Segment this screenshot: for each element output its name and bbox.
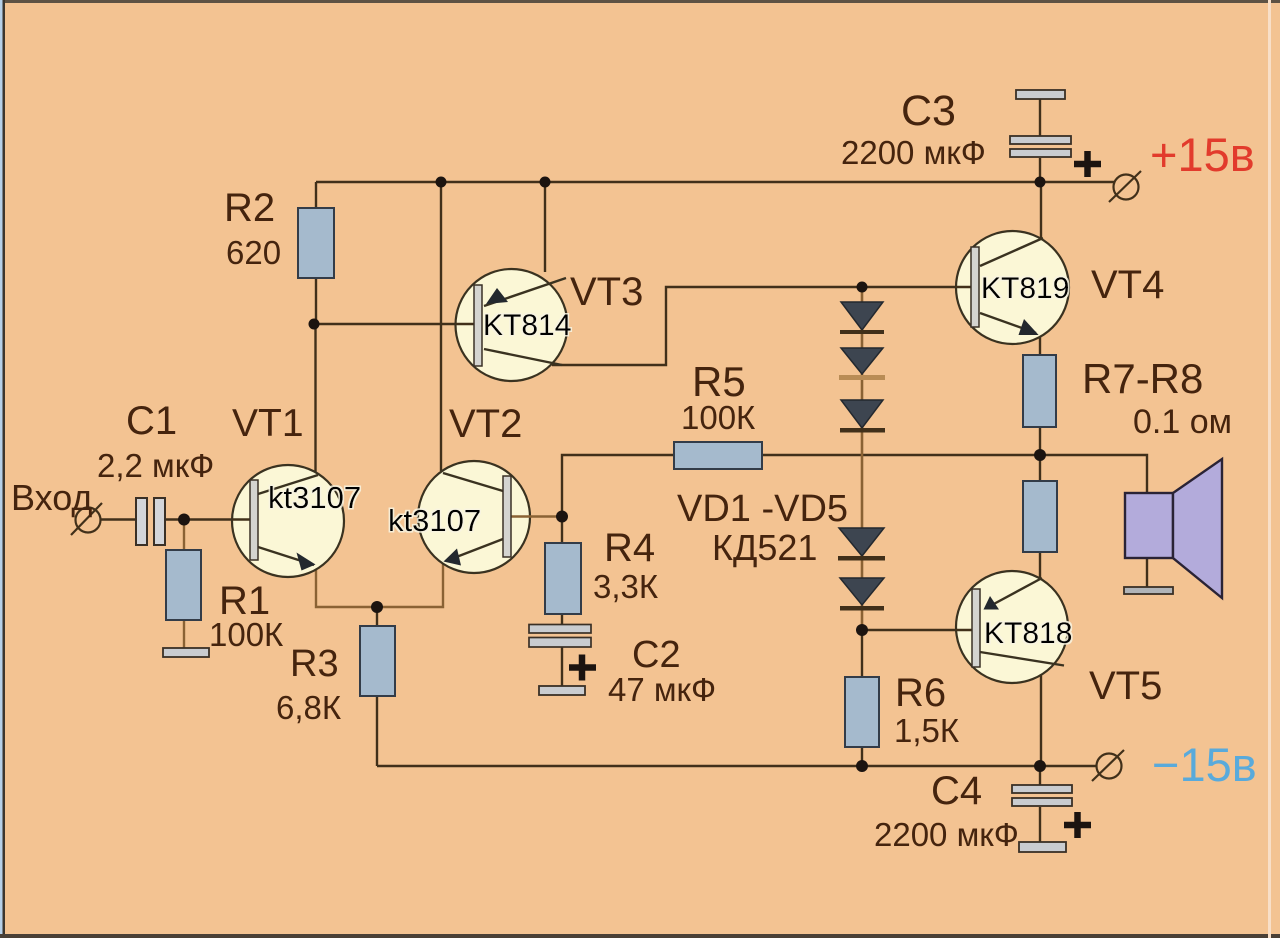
svg-text:VT5: VT5 xyxy=(1089,664,1162,708)
resistor R4 xyxy=(545,543,581,614)
capacitor C4 bottom plate xyxy=(1019,842,1066,852)
wire VT5 base xyxy=(862,629,968,631)
svg-text:0.1 ом: 0.1 ом xyxy=(1133,403,1232,441)
resistor R7 xyxy=(1023,355,1056,427)
svg-text:2,2 мкФ: 2,2 мкФ xyxy=(97,447,214,484)
resistor R3 xyxy=(360,626,395,696)
wire +15V rail xyxy=(316,181,1114,183)
wire input to C1 xyxy=(100,518,136,520)
resistor R5 xyxy=(674,442,762,469)
+15V terminal xyxy=(1109,171,1141,202)
wire VT4 collector to R7 xyxy=(1039,334,1041,355)
svg-text:VT3: VT3 xyxy=(570,270,643,314)
speaker terminal bar xyxy=(1124,587,1173,594)
-15V terminal xyxy=(1092,750,1124,781)
diode VD4 xyxy=(838,528,885,561)
svg-text:6,8К: 6,8К xyxy=(276,689,342,726)
svg-text:R5: R5 xyxy=(692,358,746,405)
svg-text:КД521: КД521 xyxy=(712,527,817,568)
wire VT2 base stub xyxy=(513,515,562,517)
svg-text:C1: C1 xyxy=(126,399,177,443)
svg-text:3,3К: 3,3К xyxy=(593,568,659,605)
svg-text:R2: R2 xyxy=(224,186,275,230)
frame border right xyxy=(1268,0,1271,938)
wire C1 to VT1 base xyxy=(166,518,250,520)
wire diode chain xyxy=(861,288,864,630)
diode VD5 xyxy=(840,578,884,611)
svg-text:KT818: KT818 xyxy=(984,617,1072,650)
svg-text:VT1: VT1 xyxy=(232,402,304,445)
svg-text:C3: C3 xyxy=(901,87,956,135)
svg-text:KT819: KT819 xyxy=(981,272,1069,305)
capacitor C2 plates xyxy=(529,625,591,648)
speaker xyxy=(1125,459,1222,598)
wire VT1 emitter to node xyxy=(314,324,316,473)
wire R6 bottom lead xyxy=(861,747,863,766)
svg-text:VD1 -VD5: VD1 -VD5 xyxy=(677,488,848,530)
svg-text:2200 мкФ: 2200 мкФ xyxy=(874,816,1019,853)
svg-text:R7-R8: R7-R8 xyxy=(1082,355,1203,402)
svg-text:R4: R4 xyxy=(604,526,655,570)
resistor R1 ground bar xyxy=(163,648,209,657)
wire -15V rail xyxy=(377,765,1097,767)
diode VD3 xyxy=(840,400,885,433)
frame border left xyxy=(0,0,5,938)
svg-text:VT4: VT4 xyxy=(1091,263,1164,307)
svg-text:KT814: KT814 xyxy=(483,309,571,342)
svg-text:100К: 100К xyxy=(209,616,284,653)
svg-text:Вход: Вход xyxy=(11,477,92,518)
svg-text:47 мкФ: 47 мкФ xyxy=(608,671,716,708)
wire VT3 collector to VT4 base xyxy=(552,287,966,365)
wire node to R5 left xyxy=(562,455,674,517)
transistor VT1 xyxy=(232,465,344,577)
svg-text:C4: C4 xyxy=(931,769,982,813)
svg-text:+15в: +15в xyxy=(1150,128,1255,181)
capacitor C3 top plate xyxy=(1016,90,1065,99)
svg-text:VT2: VT2 xyxy=(449,402,522,446)
wire R1 top lead xyxy=(183,520,185,552)
resistor R2 xyxy=(298,208,334,278)
svg-text:R6: R6 xyxy=(895,671,946,715)
svg-text:kt3107: kt3107 xyxy=(388,503,481,538)
wire C4 lower lead xyxy=(1039,807,1041,843)
svg-text:2200 мкФ: 2200 мкФ xyxy=(841,134,986,171)
wire VT3 emitter to rail xyxy=(544,182,546,272)
capacitor C3 lower plates xyxy=(1010,136,1071,157)
svg-text:C2: C2 xyxy=(632,634,681,676)
plus sign C3 xyxy=(1074,151,1101,177)
diode VD1 xyxy=(840,302,884,334)
wire R1 bottom lead xyxy=(183,620,185,650)
wire R2 bottom lead xyxy=(315,278,317,324)
wire VT5 collector to -15 rail xyxy=(1040,674,1042,766)
svg-text:−15в: −15в xyxy=(1152,738,1257,791)
input terminal xyxy=(71,503,102,535)
transistor VT5 xyxy=(956,571,1068,683)
transistor VT2 xyxy=(418,461,531,573)
wire R4 top lead xyxy=(561,517,563,543)
resistor R1 xyxy=(166,550,201,620)
wire C3 lower lead xyxy=(1039,158,1041,182)
transistor VT3 xyxy=(456,269,568,381)
capacitor C1 plates xyxy=(136,498,165,545)
junction node dots xyxy=(178,177,1046,773)
svg-text:kt3107: kt3107 xyxy=(268,480,361,515)
resistor R8 xyxy=(1023,481,1057,552)
diode VD2 xyxy=(839,348,885,380)
wire R4 to C2 xyxy=(561,614,563,627)
plus sign C2 xyxy=(569,655,596,681)
wire VT4 emitter to rail xyxy=(1040,182,1042,240)
wire R3 top lead xyxy=(376,607,378,626)
wire speaker bottom lead xyxy=(1146,558,1148,588)
wire R3 bottom lead xyxy=(376,696,378,766)
wire R8 to VT5 xyxy=(1039,552,1041,580)
wire VT2 emitter to rail xyxy=(440,182,442,471)
wire C4 upper lead xyxy=(1039,766,1041,786)
wire R2 top lead xyxy=(315,182,317,208)
wire R6 top lead xyxy=(861,630,863,677)
wire R7-R8 junction xyxy=(1039,427,1041,481)
svg-text:1,5К: 1,5К xyxy=(894,712,960,749)
plus sign C4 xyxy=(1064,812,1091,838)
svg-text:R3: R3 xyxy=(290,643,339,685)
svg-text:620: 620 xyxy=(226,234,281,271)
wire C2 bottom lead xyxy=(561,645,563,687)
svg-text:100К: 100К xyxy=(681,399,756,436)
capacitor C4 upper plates xyxy=(1012,785,1072,806)
wire R5 to speaker xyxy=(762,455,1147,493)
resistor R6 xyxy=(845,677,879,747)
wire VT3 base xyxy=(314,323,474,325)
transistor VT4 xyxy=(956,231,1069,344)
frame border bottom xyxy=(0,934,1280,938)
wire C3 upper lead xyxy=(1039,99,1041,136)
frame border top xyxy=(0,0,1280,3)
wire VT1 VT2 collectors to R3 xyxy=(316,563,443,607)
capacitor C2 bottom terminal bar xyxy=(539,686,585,695)
